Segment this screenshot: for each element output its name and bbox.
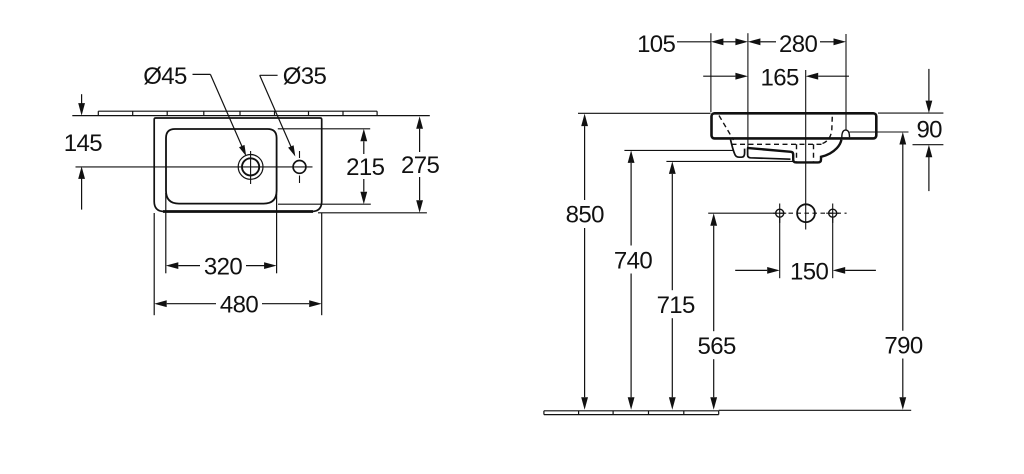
hidden bowl lines (dashed) (719, 116, 832, 162)
svg-text:215: 215 (346, 154, 384, 181)
svg-text:715: 715 (657, 292, 695, 319)
dimension 480 (154, 213, 322, 318)
dimension 275 (318, 116, 439, 213)
dimension 165 (703, 64, 849, 91)
extension line ext3 (845, 34, 847, 130)
mounting holes row (773, 204, 847, 223)
dimension 850 (566, 114, 604, 410)
faucet hole D45 (238, 151, 263, 184)
850 reference line (basin top) (578, 112, 711, 114)
90 top reference line (878, 112, 943, 114)
svg-text:280: 280 (779, 31, 817, 58)
bowl underside and drain boss (747, 140, 842, 163)
svg-text:850: 850 (566, 202, 604, 229)
svg-text:320: 320 (204, 253, 242, 280)
dimension 740 (614, 150, 652, 409)
svg-text:145: 145 (64, 130, 102, 157)
dimension 565 (697, 213, 735, 410)
left fixing bracket (under basin) (731, 140, 745, 158)
extension line ext2 (747, 33, 749, 157)
overflow channel arch (842, 130, 850, 138)
dimension 105 (637, 31, 748, 58)
inner bowl outline (top view) (166, 129, 277, 204)
svg-text:480: 480 (220, 291, 258, 318)
svg-text:165: 165 (760, 64, 798, 91)
715 reference line (666, 160, 793, 162)
centerline through holes (76, 166, 313, 168)
90 bottom reference line (913, 144, 944, 146)
overflow hole D35 (293, 151, 306, 183)
floor line (544, 410, 911, 414)
dimension 715 (657, 161, 695, 409)
svg-text:90: 90 (916, 116, 942, 143)
leader D45 (143, 63, 246, 156)
leader D35 (260, 63, 327, 156)
dimension 90 (916, 69, 942, 191)
dimension 145 (64, 94, 102, 209)
dimension 790 (884, 132, 922, 410)
basin body (front view) (712, 113, 877, 138)
svg-text:150: 150 (790, 259, 828, 286)
svg-text:Ø45: Ø45 (143, 63, 187, 90)
dimension 280 (748, 31, 846, 58)
extension line ext1 (710, 33, 712, 112)
svg-text:790: 790 (884, 332, 922, 359)
centerline vertical (805, 70, 807, 230)
790 reference line (850, 131, 909, 133)
dimension 215 (278, 129, 385, 204)
svg-text:Ø35: Ø35 (283, 63, 327, 90)
svg-text:275: 275 (401, 152, 439, 179)
wall bar (top view) (72, 111, 430, 115)
svg-text:565: 565 (697, 333, 735, 360)
dimension 320 (166, 193, 277, 280)
basin outer outline (top view) (154, 118, 322, 212)
bracket slot right wall + lower bowl line (748, 149, 791, 160)
svg-text:105: 105 (637, 31, 675, 58)
565 reference line (708, 212, 772, 214)
740 reference line (624, 149, 733, 151)
dimension 150 (735, 219, 876, 286)
svg-text:740: 740 (614, 247, 652, 274)
